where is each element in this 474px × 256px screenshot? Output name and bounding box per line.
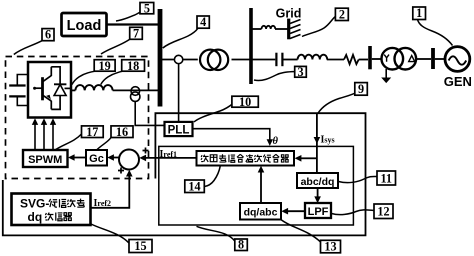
op block PLL 10 <box>165 122 193 136</box>
inductor (grid) <box>262 26 276 29</box>
svg-text:11: 11 <box>380 171 392 185</box>
node (voltage tap) <box>174 55 182 63</box>
svg-text:abc/dq: abc/dq <box>301 176 335 188</box>
wire <box>416 58 431 60</box>
svg-text:19: 19 <box>99 59 111 73</box>
wire load to bus <box>107 23 158 25</box>
ground (transformer neutral) <box>381 69 391 83</box>
wire tap to PLL <box>178 64 180 122</box>
dashed box 6 (SVG device) <box>6 57 149 179</box>
svg-text:14: 14 <box>188 179 200 193</box>
summer node <box>119 150 139 170</box>
wire CT to PLL <box>135 101 164 125</box>
svg-text:8: 8 <box>238 238 244 252</box>
svg-text:Iref2: Iref2 <box>94 198 112 209</box>
wire Isys branch to filter <box>295 155 317 162</box>
op block dq/abc 13 <box>240 203 281 220</box>
label 17 <box>55 125 103 150</box>
op block Gc 16 <box>86 150 107 166</box>
label 1 <box>413 6 453 45</box>
wire <box>359 59 368 61</box>
svg-text:18: 18 <box>127 59 139 73</box>
bus (grid bus) <box>249 8 253 84</box>
svg-text:1: 1 <box>416 6 422 20</box>
inductor (line) <box>298 55 328 60</box>
op block abc/dq 11 <box>297 173 338 188</box>
label 14 <box>185 166 221 194</box>
wire Gc to SPWM <box>68 154 86 160</box>
svg-text:Gc: Gc <box>89 153 104 165</box>
wire tie line right <box>232 59 250 61</box>
wire dq/abc to filter <box>258 166 265 203</box>
converter 19 (VSC bridge) <box>28 62 71 118</box>
svg-text:7: 7 <box>133 26 139 40</box>
capacitor 3 (series) <box>252 53 298 66</box>
generator GEN 1 <box>444 47 472 89</box>
wire grid branch <box>252 28 288 30</box>
svg-text:12: 12 <box>377 205 389 219</box>
label 7 <box>101 26 142 54</box>
svg-text:15: 15 <box>134 239 146 253</box>
label 4 <box>163 15 210 48</box>
label 3 <box>254 65 306 80</box>
label 5 <box>116 2 154 22</box>
svg-text:Iref1: Iref1 <box>160 149 178 160</box>
svg-text:9: 9 <box>358 82 364 96</box>
svg-text:dq: dq <box>28 210 43 224</box>
label 13 <box>282 220 341 254</box>
svg-text:GEN: GEN <box>444 74 472 89</box>
wire LPF to dq/abc <box>281 208 305 215</box>
svg-text:5: 5 <box>144 2 150 16</box>
wire <box>327 59 344 61</box>
capacitor (DC link) <box>9 75 28 106</box>
svg-text:13: 13 <box>324 240 336 254</box>
wire Iref2 <box>91 170 133 209</box>
filter box 8 (inner) <box>159 146 354 225</box>
wire SPWM gate arrows <box>35 124 53 151</box>
transformer (GSU, Y-delta) <box>382 48 417 70</box>
label 16 <box>97 125 134 150</box>
wire PLL theta <box>193 129 279 147</box>
diode (freewheel) <box>51 67 71 110</box>
svg-text:Isys: Isys <box>321 135 335 146</box>
label 18 <box>101 59 145 85</box>
plus sign (bottom left) <box>118 168 124 174</box>
wire abc/dq to LPF <box>314 188 321 203</box>
node bar <box>431 48 435 69</box>
load 5 box <box>62 13 107 36</box>
node bar <box>368 46 372 69</box>
filter block 14 (subsync filter synthesizer) <box>197 151 295 166</box>
controller 15 (SVG mode dq) <box>12 194 91 226</box>
svg-text:4: 4 <box>200 15 206 29</box>
wire <box>435 58 445 60</box>
svg-text:Grid: Grid <box>276 7 302 21</box>
svg-text:dq/abc: dq/abc <box>244 207 278 219</box>
wire tie line left <box>162 59 198 61</box>
wire Iref1 <box>139 149 196 161</box>
svg-text:6: 6 <box>45 28 51 42</box>
label 8 <box>197 226 248 251</box>
plus sign (top right) <box>143 148 149 154</box>
svg-text:17: 17 <box>86 125 98 139</box>
label 2 <box>302 7 348 36</box>
label 9 <box>318 82 367 113</box>
label 12 <box>332 204 394 219</box>
wire to bus <box>113 89 158 91</box>
control box 9 (outer, L-shape) <box>3 113 366 235</box>
wire <box>372 58 382 60</box>
svg-text:PLL: PLL <box>168 124 190 136</box>
wire summer to Gc <box>107 154 119 160</box>
svg-text:16: 16 <box>116 125 128 139</box>
svg-text:3: 3 <box>298 65 304 79</box>
svg-text:LPF: LPF <box>308 206 329 218</box>
bus 4 (plant bus) <box>158 9 163 107</box>
op block SPWM 17 <box>23 150 68 167</box>
svg-text:θ: θ <box>273 136 279 147</box>
current transformer <box>131 87 140 102</box>
svg-text:Load: Load <box>67 18 102 34</box>
svg-text:10: 10 <box>239 95 251 109</box>
transistor (IGBT) <box>33 67 51 110</box>
grid source 2 (infinite bus) <box>276 7 302 40</box>
label 6 <box>14 28 54 55</box>
wire Isys <box>314 113 335 173</box>
transformer (tie) <box>200 50 228 70</box>
label 11 <box>339 171 396 185</box>
svg-text:2: 2 <box>339 7 345 21</box>
label 15 <box>91 224 152 253</box>
op block LPF 12 <box>305 203 331 218</box>
label 19 <box>72 59 115 85</box>
resistor (line) <box>344 55 359 64</box>
svg-text:SPWM: SPWM <box>28 154 62 166</box>
wire converter output <box>71 89 75 91</box>
svg-text:SVG-: SVG- <box>20 197 49 211</box>
label 10 <box>194 95 258 122</box>
inductor 18 (coupling reactor) <box>75 85 112 90</box>
